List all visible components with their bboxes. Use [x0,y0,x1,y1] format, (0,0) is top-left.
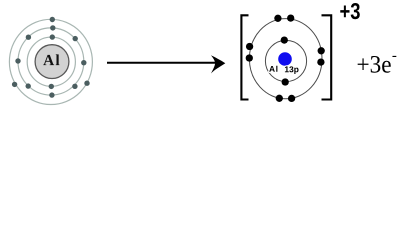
electron (inner top) [50,34,55,39]
ion electron (outer right lower) [317,58,324,65]
right bracket [322,15,332,99]
ion electron (inner bottom) [282,78,289,85]
ion nucleus (blue) [278,52,292,66]
ion outer shell [249,19,322,99]
electron (outer lower-right) [84,81,89,86]
ion electron (outer top-right of pair) [287,14,294,21]
electron (middle left) [15,58,20,63]
electron (middle lower-left) [26,83,31,88]
electron (inner bottom) [49,84,54,89]
left bracket [241,15,248,99]
reaction arrow [107,55,225,73]
ion electron (outer top-left of pair) [274,15,281,22]
electron (outer lower-left) [12,82,17,87]
electron (middle right) [81,60,86,65]
electron (middle upper-left) [26,35,31,40]
ion electron (outer left upper) [246,43,253,50]
ion inner shell [265,40,306,81]
ion electron (outer bottom-right of pair) [288,95,295,102]
nucleus of Al atom [35,45,69,79]
shell L (middle) of Al atom [18,28,84,95]
ion electron (outer bottom-left of pair) [276,95,283,102]
label Al [43,54,59,65]
ion electron (outer left lower) [246,54,253,61]
ion electron (inner top) [281,36,288,43]
shell K (inner) of Al atom [27,37,75,86]
released electrons label +3e- [358,56,397,73]
electron (middle upper-right) [73,36,78,41]
label Al 13p [269,66,298,74]
electron (outer top) [50,17,55,22]
ion electron (outer right upper) [318,47,325,54]
shell M (outer) of Al atom [9,19,92,104]
charge label +3 [340,3,360,19]
electron (middle bottom) [49,92,54,97]
electron (middle lower-right) [72,84,77,89]
electron (middle top) [50,25,55,30]
